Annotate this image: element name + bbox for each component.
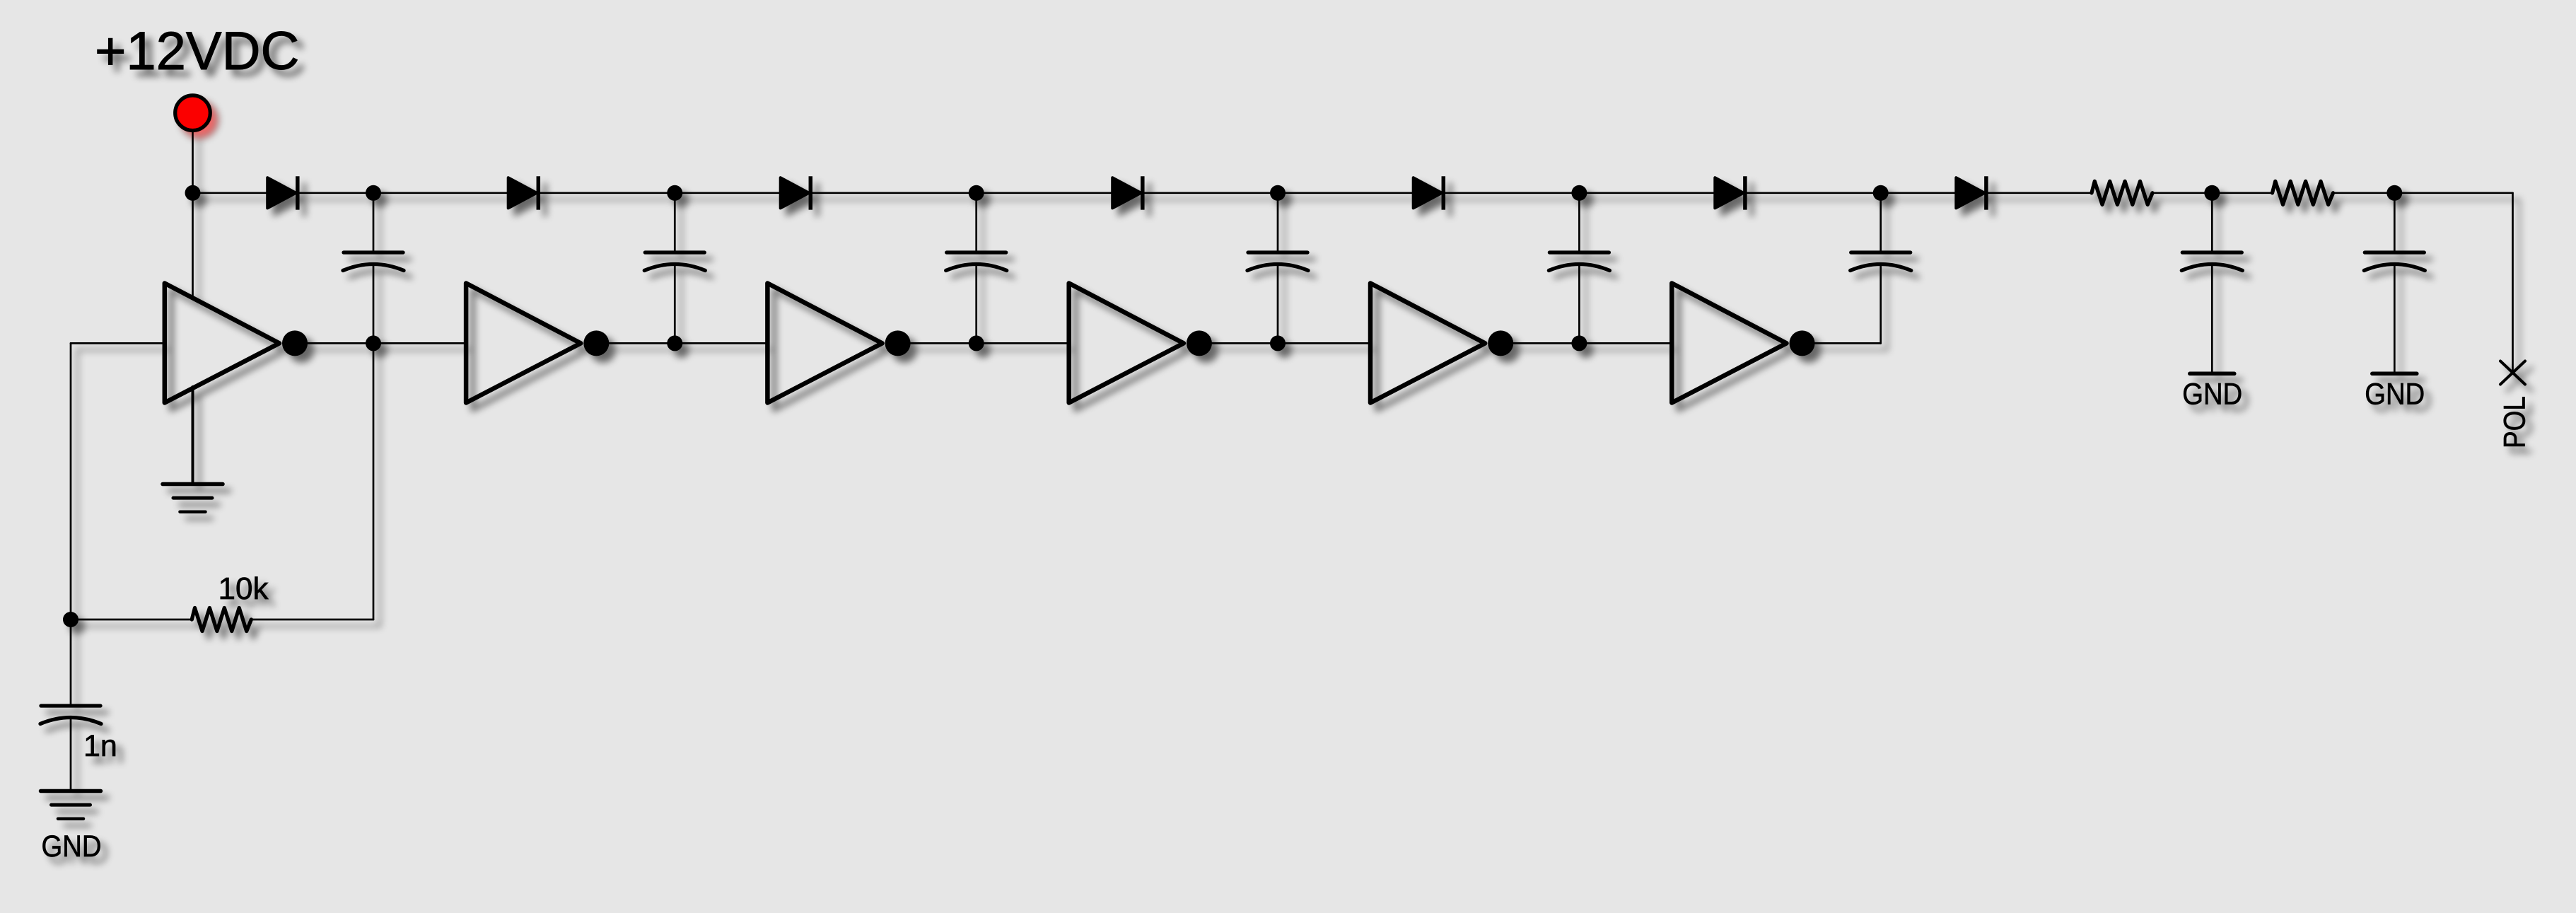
inverter U3 [767,284,910,403]
ground: GND bar at C8 [2372,372,2417,376]
wire: C7 bottom lead [2211,264,2213,372]
wire: rail down to U1 power pin [192,193,194,298]
wire: C6 top lead [1879,193,1882,252]
diode D2 [508,176,539,209]
capacitor C5 [1549,252,1609,271]
terminal +12VDC (red) [175,95,211,131]
diode D6 [1715,176,1745,209]
node: row junction at C4 [1270,335,1286,351]
wire: U1 ground pin [192,387,194,484]
wire: +12VDC terminal to rail [192,132,194,193]
inverter U6 [1672,284,1814,403]
diode D1 [267,176,298,209]
ground: U1 ground symbol [163,484,223,512]
capacitor C4 [1247,252,1308,271]
wire: output vertical to POL [2512,193,2514,373]
wire: C6 bottom lead [1879,264,1882,344]
capacitor C1 [343,252,404,271]
capacitor C8 [2364,252,2425,271]
node: rail junction at C5 [1571,185,1587,201]
terminal: POL no-connect X [2500,361,2525,385]
wire: C5 top lead [1578,193,1580,252]
resistor R3 10k [192,608,251,632]
node: rail junction at C3 [969,185,984,201]
wire: C3 top lead [975,193,977,252]
diode D7 [1956,176,1986,209]
wire: U4 output to next stage [1199,342,1368,344]
node: rail junction at C4 [1270,185,1286,201]
wire: feedback row right of R3 [250,619,373,621]
diode D4 [1112,176,1143,209]
wire: C4 bottom lead [1277,264,1279,344]
wire: C8 top lead [2394,193,2396,252]
inverter U5 [1370,284,1513,403]
wire: C2 bottom lead [674,264,676,344]
node: row junction at C1 [366,335,381,351]
wire: C3 bottom lead [975,264,977,344]
wire: U6 output to next stage [1802,342,1881,344]
inverter U4 [1069,284,1212,403]
wire: rail segment from R2 to output corner [2333,192,2513,194]
capacitor C3 [946,252,1007,271]
svg-text:10k: 10k [218,571,269,606]
resistor R1 [2092,181,2152,204]
wire: rail segment between R1 and R2 [2152,192,2273,194]
svg-text:1n: 1n [83,729,117,763]
wire: C1 top lead [373,193,375,252]
node: junction at C8 filter [2386,185,2402,201]
wire: feedback row left of R3 [71,619,192,621]
wire: C9 top lead [70,620,72,706]
node: row junction at C3 [969,335,984,351]
inverter U1 [165,284,308,403]
svg-text:GND: GND [2182,378,2242,412]
ground: GND bar at C7 [2190,372,2234,376]
node: row junction at C5 [1571,335,1587,351]
wire: diode rail segment 1 [193,192,2093,194]
node: rail junction at C2 [667,185,682,201]
wire: C4 top lead [1277,193,1279,252]
wire: left feedback vertical [70,343,72,620]
ground: C9 ground symbol [41,791,101,819]
node: junction at C7 filter [2204,185,2220,201]
capacitor C6 [1851,252,1911,271]
diode D3 [781,176,811,209]
wire: U1 input [71,342,165,344]
diode D5 [1414,176,1444,209]
svg-text:+12VDC: +12VDC [95,21,299,81]
wire: C2 top lead [674,193,676,252]
wire: U2 output to next stage [596,342,765,344]
node: row junction at C2 [667,335,682,351]
svg-text:GND: GND [2365,378,2425,412]
wire: U5 output to next stage [1500,342,1669,344]
wire: U3 output to next stage [898,342,1067,344]
wire: C9 bottom lead [70,718,72,791]
inverter U2 [466,284,609,403]
svg-text:GND: GND [42,830,102,863]
capacitor C2 [644,252,705,271]
node: rail junction at C1 [366,185,381,201]
node: feedback junction [63,612,78,627]
wire: C7 top lead [2211,193,2213,252]
svg-text:POL: POL [2498,396,2532,448]
wire: C8 bottom lead [2394,264,2396,372]
node: rail junction at C6 [1873,185,1889,201]
wire: C5 bottom lead [1578,264,1580,344]
resistor R2 [2273,181,2333,204]
capacitor C9 1n [40,706,101,724]
wire: right feedback vertical [373,343,375,620]
wire: U1 output to next stage [295,342,464,344]
node: +12VDC rail junction [185,185,201,201]
wire: C1 bottom lead [373,264,375,344]
capacitor C7 [2181,252,2242,271]
